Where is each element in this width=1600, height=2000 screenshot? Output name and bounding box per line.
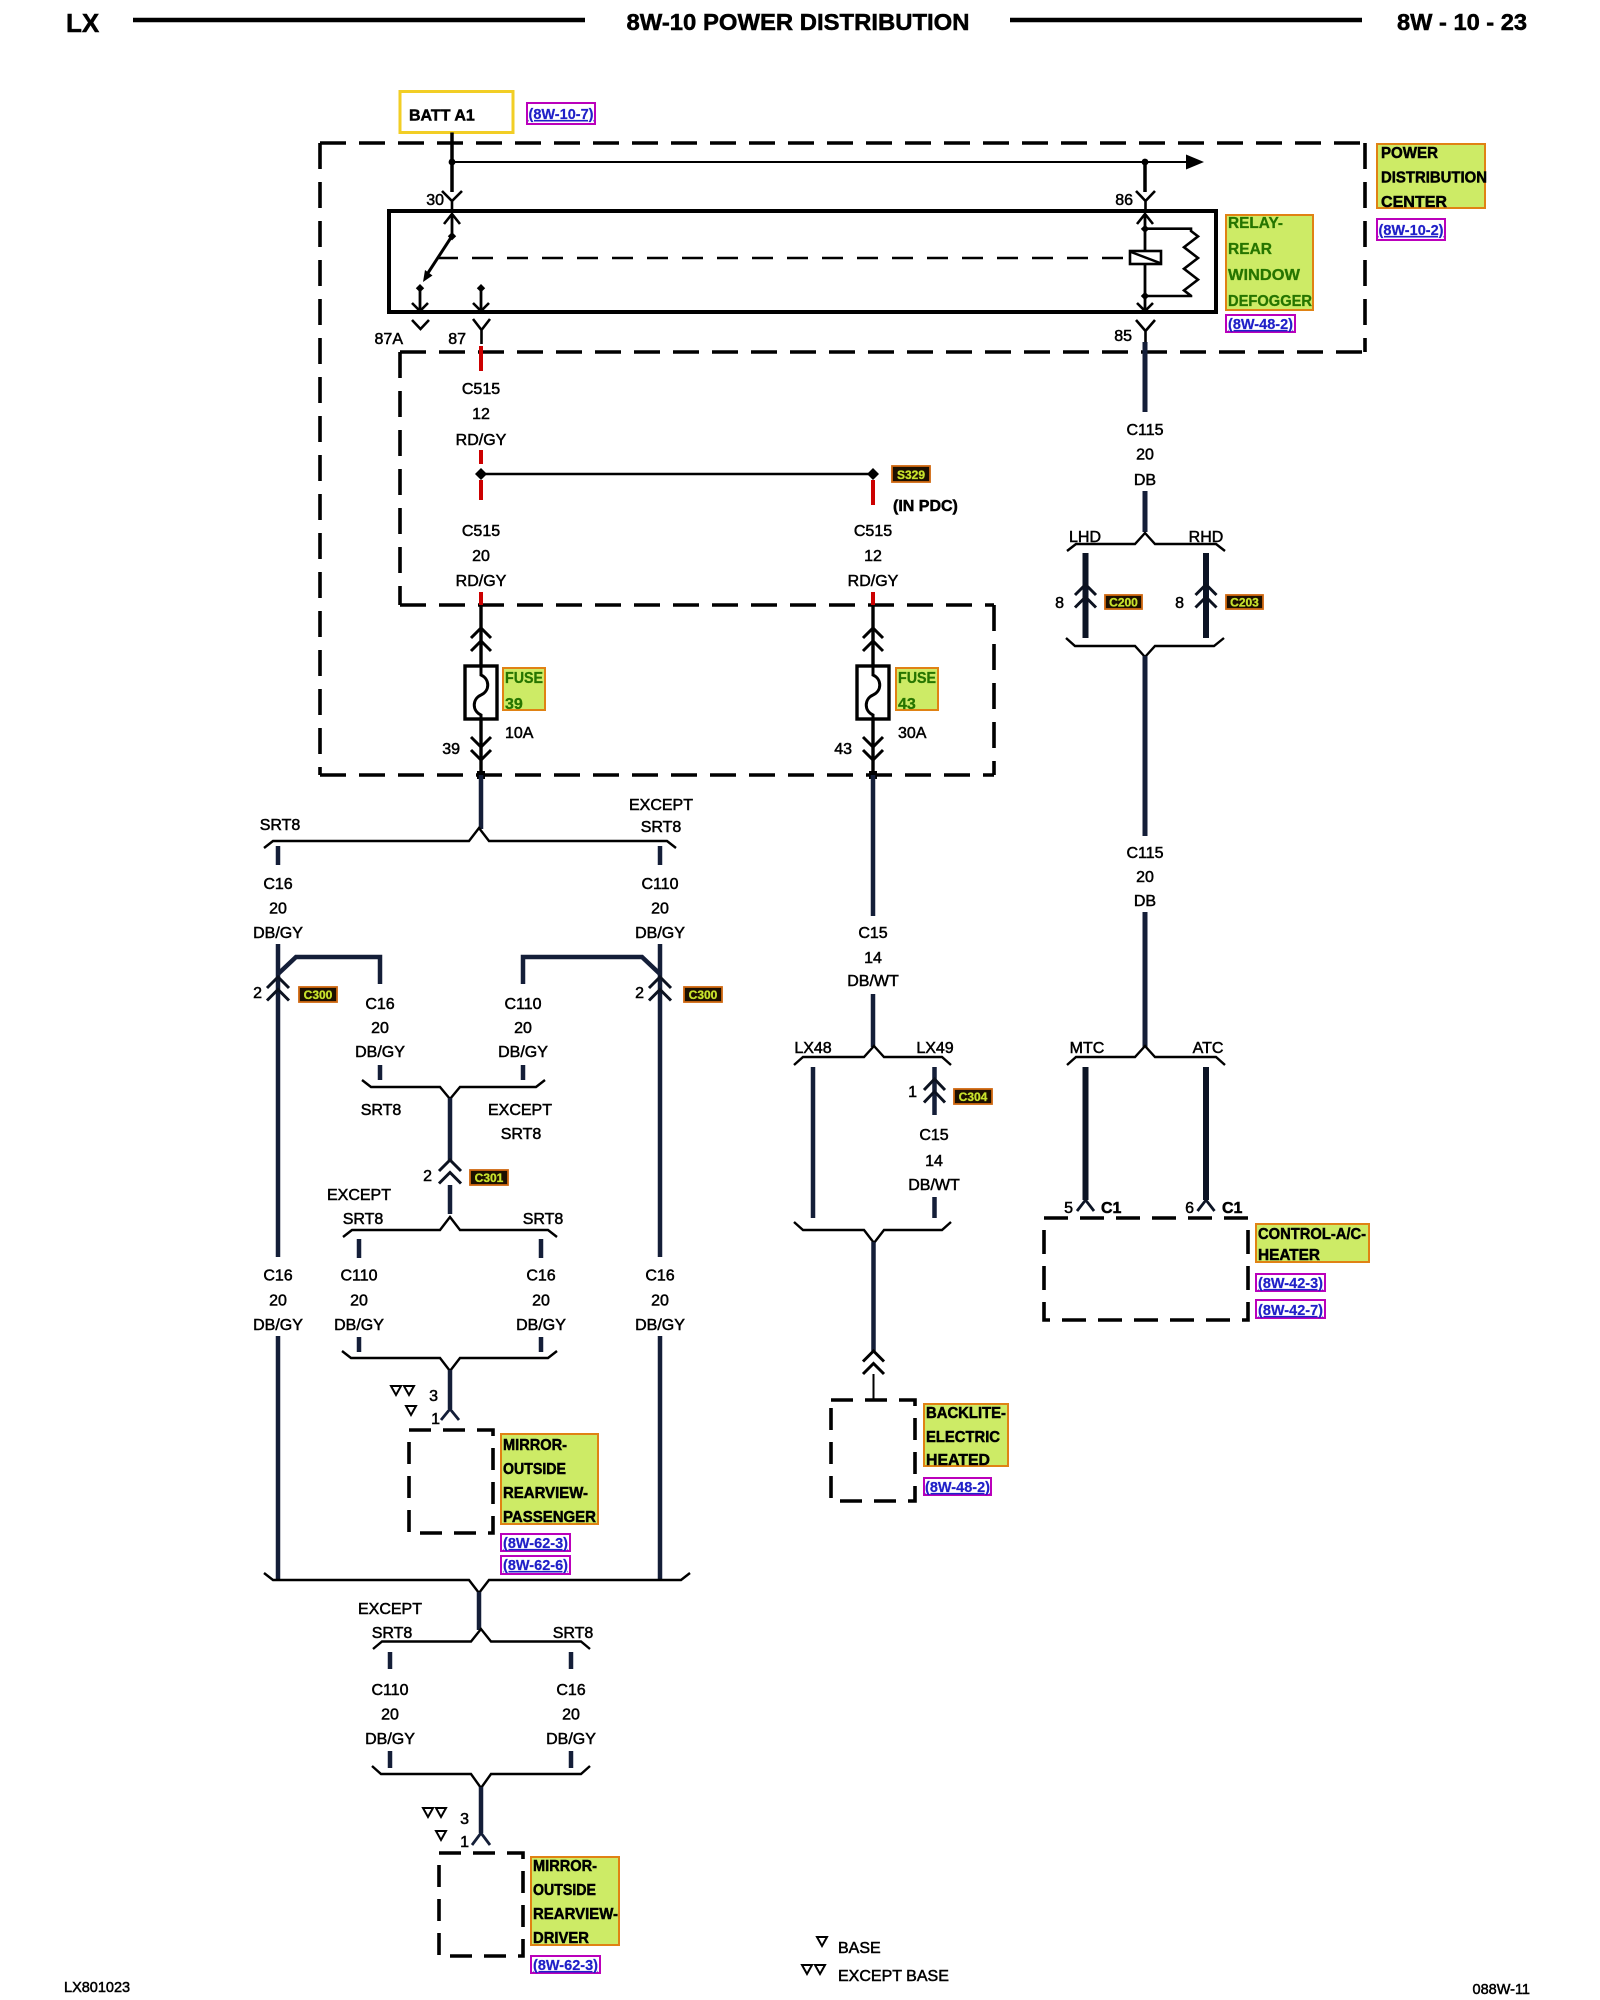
svg-text:14: 14 [925,1153,943,1170]
svg-text:(8W-42-3): (8W-42-3) [1258,1276,1323,1292]
mirror driver dashed box [439,1853,523,1956]
wire LHD leg connector C200 [1083,553,1089,638]
svg-text:C515: C515 [462,381,500,398]
svg-text:DB/GY: DB/GY [253,1317,303,1334]
pin fork passenger mirror [441,1409,459,1420]
svg-text:20: 20 [472,548,490,565]
svg-text:3: 3 [429,1388,438,1405]
svg-text:6: 6 [1185,1200,1194,1217]
svg-text:43: 43 [834,741,852,758]
svg-text:BASE: BASE [838,1940,881,1957]
svg-text:C110: C110 [641,876,678,893]
left/right outer wires lower [276,1336,281,1580]
wire MTC leg [1083,1067,1089,1200]
svg-text:20: 20 [514,1020,532,1037]
svg-text:C110: C110 [340,1268,377,1285]
brace merge backlite [794,1222,951,1243]
svg-text:C301: C301 [475,1171,504,1185]
wire below splice left [479,480,483,500]
svg-text:LHD: LHD [1069,529,1101,546]
brace merge into C301 [362,1080,545,1099]
svg-text:DB/WT: DB/WT [908,1177,960,1194]
brace split below C301 [343,1217,557,1237]
svg-text:8W - 10 - 23: 8W - 10 - 23 [1397,9,1527,35]
svg-text:S329: S329 [897,468,925,482]
svg-text:8: 8 [1055,595,1064,612]
svg-text:088W-11: 088W-11 [1473,1982,1531,1998]
wire fuse39 out [479,775,484,829]
svg-text:2: 2 [635,985,644,1002]
svg-text:3: 3 [460,1811,469,1828]
svg-text:2: 2 [253,985,262,1002]
svg-text:RD/GY: RD/GY [456,432,507,449]
svg-text:C110: C110 [504,996,541,1013]
svg-text:20: 20 [381,1707,399,1724]
svg-text:RHD: RHD [1189,529,1224,546]
svg-text:FUSE: FUSE [898,670,936,687]
svg-text:(8W-10-7): (8W-10-7) [529,107,594,123]
brace split driver branch [373,1629,590,1649]
svg-text:C16: C16 [263,1268,292,1285]
battery feed label BATT A1 [400,92,513,133]
svg-text:REARVIEW-: REARVIEW- [533,1906,618,1923]
right main wire upper [658,944,663,1257]
label CONTROL-A/C-HEATER [1256,1224,1369,1264]
svg-text:(8W-62-3): (8W-62-3) [503,1536,568,1552]
left branch to C16 [278,957,380,984]
svg-text:LX48: LX48 [794,1040,831,1057]
svg-text:C515: C515 [462,523,500,540]
splice S329 [475,468,487,480]
svg-text:OUTSIDE: OUTSIDE [503,1461,566,1478]
svg-text:C1: C1 [1222,1200,1243,1217]
legend EXCEPT BASE [802,1965,812,1974]
svg-text:C16: C16 [556,1682,585,1699]
wire BATT A1 down [450,133,454,193]
svg-text:20: 20 [269,901,287,918]
brace split LHD/RHD [1067,533,1225,551]
svg-text:C203: C203 [1230,596,1259,610]
svg-text:(8W-48-2): (8W-48-2) [1228,317,1293,333]
svg-text:DB/GY: DB/GY [546,1731,596,1748]
svg-text:C115: C115 [1126,845,1163,862]
relay RELAY-REAR WINDOW DEFOGGER box [389,211,1216,312]
big brace merge [264,1573,690,1593]
svg-text:HEATED: HEATED [926,1452,990,1469]
svg-text:87A: 87A [375,331,404,348]
relay contact 87A [416,284,424,292]
svg-text:5: 5 [1064,1200,1073,1217]
wire ATC leg [1203,1067,1209,1200]
svg-text:20: 20 [1136,447,1154,464]
svg-text:SRT8: SRT8 [343,1211,384,1228]
svg-text:FUSE: FUSE [505,670,543,687]
svg-text:LX801023: LX801023 [64,1980,130,1996]
svg-text:30: 30 [426,192,444,209]
svg-text:REARVIEW-: REARVIEW- [503,1485,588,1502]
svg-text:C1: C1 [1101,1200,1122,1217]
svg-text:(IN PDC): (IN PDC) [893,498,958,515]
power distribution center dashed enclosure [320,143,1365,775]
right branch to C110 [523,957,660,984]
svg-text:SRT8: SRT8 [372,1625,413,1642]
svg-text:86: 86 [1115,192,1133,209]
svg-text:DRIVER: DRIVER [533,1930,589,1947]
pin 5 C1 [1077,1200,1094,1211]
svg-text:SRT8: SRT8 [501,1126,542,1143]
variant triangles driver [423,1808,433,1817]
svg-text:39: 39 [505,696,523,713]
svg-text:EXCEPT: EXCEPT [358,1601,422,1618]
pin fork driver mirror [472,1833,490,1845]
wire below big merge [477,1592,482,1630]
svg-text:RD/GY: RD/GY [456,573,507,590]
wire LX48 leg [811,1067,816,1218]
relay coil branch pin 86 [1137,214,1153,224]
svg-text:EXCEPT: EXCEPT [327,1187,391,1204]
right column: wire 85 down [1143,342,1148,412]
brace merge below C200/C203 [1066,638,1224,657]
svg-text:1: 1 [460,1834,469,1851]
svg-text:C115: C115 [1126,422,1163,439]
svg-text:MTC: MTC [1070,1040,1105,1057]
label RELAY-REAR WINDOW DEFOGGER [1226,215,1313,310]
brace split SRT8 / EXCEPT SRT8 [264,828,676,848]
svg-text:ATC: ATC [1193,1040,1224,1057]
svg-text:DB/GY: DB/GY [635,925,685,942]
wire 87 red segment C515 [479,346,483,371]
svg-text:BATT A1: BATT A1 [409,108,475,125]
connector C300 left [267,977,289,1001]
fuse 39 [479,605,482,666]
variant triangles [391,1386,401,1395]
brace split LX48/LX49 [794,1046,951,1065]
svg-text:DB: DB [1134,893,1156,910]
svg-text:WINDOW: WINDOW [1228,267,1301,284]
relay mechanical link (dashed) [437,257,1129,260]
svg-text:(8W-48-2): (8W-48-2) [925,1480,990,1496]
svg-text:20: 20 [1136,869,1154,886]
svg-text:12: 12 [472,406,490,423]
svg-text:C300: C300 [304,988,333,1002]
connector C300 right [649,977,671,1001]
svg-text:CONTROL-A/C-: CONTROL-A/C- [1258,1226,1366,1243]
svg-text:DB: DB [1134,472,1156,489]
svg-text:DB/GY: DB/GY [365,1731,415,1748]
svg-text:20: 20 [371,1020,389,1037]
svg-text:DB/GY: DB/GY [355,1044,405,1061]
brace merge above driver mirror [372,1766,590,1788]
svg-text:EXCEPT: EXCEPT [629,797,693,814]
svg-text:SRT8: SRT8 [361,1102,402,1119]
svg-text:C110: C110 [371,1682,408,1699]
svg-text:LX49: LX49 [916,1040,953,1057]
svg-text:C16: C16 [645,1268,674,1285]
legend BASE [817,1937,827,1946]
svg-text:EXCEPT BASE: EXCEPT BASE [838,1968,949,1985]
svg-text:2: 2 [423,1168,432,1185]
mirror passenger dashed box [409,1430,493,1533]
svg-text:REAR: REAR [1228,241,1272,258]
svg-text:20: 20 [269,1293,287,1310]
svg-text:20: 20 [651,901,669,918]
svg-text:SRT8: SRT8 [523,1211,564,1228]
wire stubs under brace [276,846,281,865]
svg-text:C300: C300 [689,988,718,1002]
svg-text:ELECTRIC: ELECTRIC [926,1429,1000,1446]
svg-text:8: 8 [1175,595,1184,612]
svg-text:(8W-42-7): (8W-42-7) [1258,1303,1323,1319]
svg-text:20: 20 [651,1293,669,1310]
svg-text:POWER: POWER [1381,145,1438,162]
svg-text:MIRROR-: MIRROR- [533,1858,597,1875]
brace merge above passenger mirror [342,1351,557,1371]
wire thin feed to arrow [452,161,1188,163]
svg-text:DB/GY: DB/GY [334,1317,384,1334]
svg-text:(8W-62-6): (8W-62-6) [503,1558,568,1574]
svg-text:12: 12 [864,548,882,565]
svg-text:RELAY-: RELAY- [1228,215,1283,232]
svg-text:BACKLITE-: BACKLITE- [926,1405,1006,1422]
svg-text:DISTRIBUTION: DISTRIBUTION [1381,170,1487,187]
connector C301 [439,1160,461,1184]
svg-text:10A: 10A [505,725,534,742]
wire below splice right [871,480,875,505]
wire RHD leg connector C203 [1203,553,1209,638]
label BACKLITE-ELECTRIC HEATED [924,1404,1008,1469]
svg-text:PASSENGER: PASSENGER [503,1509,596,1526]
svg-text:SRT8: SRT8 [641,819,682,836]
svg-text:20: 20 [532,1293,550,1310]
svg-text:OUTSIDE: OUTSIDE [533,1882,596,1899]
svg-text:14: 14 [864,950,882,967]
svg-text:EXCEPT: EXCEPT [488,1102,552,1119]
wire C115 mid [1143,656,1148,836]
svg-text:1: 1 [908,1084,917,1101]
svg-text:C16: C16 [263,876,292,893]
link 8W-10-7 [527,103,595,124]
svg-text:C515: C515 [854,523,892,540]
svg-text:CENTER: CENTER [1381,194,1447,211]
svg-text:HEATER: HEATER [1258,1247,1320,1264]
svg-text:85: 85 [1114,328,1132,345]
control a/c heater dashed box [1044,1218,1248,1320]
svg-text:C304: C304 [959,1090,988,1104]
svg-text:C15: C15 [919,1127,948,1144]
fuse 43 [871,605,874,666]
svg-text:DB/GY: DB/GY [253,925,303,942]
wire LX49 leg with connector C304 [932,1067,937,1115]
svg-text:20: 20 [562,1707,580,1724]
pin 6 C1 [1198,1200,1215,1211]
svg-text:DEFOGGER: DEFOGGER [1228,293,1312,310]
svg-text:DB/WT: DB/WT [847,973,899,990]
svg-text:LX: LX [66,8,100,38]
svg-text:DB/GY: DB/GY [635,1317,685,1334]
svg-text:C15: C15 [858,925,887,942]
svg-text:39: 39 [442,741,460,758]
svg-text:(8W-62-3): (8W-62-3) [533,1958,598,1974]
svg-text:SRT8: SRT8 [553,1625,594,1642]
node junction dots [449,159,456,166]
svg-text:43: 43 [898,696,916,713]
svg-text:1: 1 [431,1411,440,1428]
link 8W-10-2 [1377,219,1445,240]
svg-text:DB/GY: DB/GY [516,1317,566,1334]
label MIRROR-OUTSIDE REARVIEW-PASSENGER [501,1434,598,1526]
backlite dashed box [831,1400,915,1501]
relay contact 87 [477,284,485,292]
svg-text:SRT8: SRT8 [260,817,301,834]
relay resistor [1145,229,1198,296]
brace split MTC/ATC [1067,1046,1225,1065]
relay coil [1130,251,1161,264]
left main wire upper [276,944,281,1257]
svg-text:C16: C16 [526,1268,555,1285]
svg-text:DB/GY: DB/GY [498,1044,548,1061]
svg-text:MIRROR-: MIRROR- [503,1437,567,1454]
svg-text:87: 87 [448,331,466,348]
label MIRROR-OUTSIDE REARVIEW-DRIVER [531,1857,619,1947]
svg-text:8W-10 POWER DISTRIBUTION: 8W-10 POWER DISTRIBUTION [627,9,970,35]
svg-text:RD/GY: RD/GY [848,573,899,590]
svg-text:30A: 30A [898,725,927,742]
svg-text:C16: C16 [365,996,394,1013]
wire to pin 86 [1143,162,1147,192]
svg-text:C200: C200 [1109,596,1138,610]
svg-text:(8W-10-2): (8W-10-2) [1379,223,1444,239]
link 8W-48-2 [1226,315,1295,333]
wire into C301 [448,1098,453,1160]
relay switch: pin 30 arm [444,214,460,224]
label POWER DISTRIBUTION CENTER [1377,144,1487,211]
relay pin 85 arrow [1144,296,1147,310]
connector into backlite [863,1351,884,1374]
svg-text:20: 20 [350,1293,368,1310]
middle column: wire fuse43 out [871,775,876,916]
